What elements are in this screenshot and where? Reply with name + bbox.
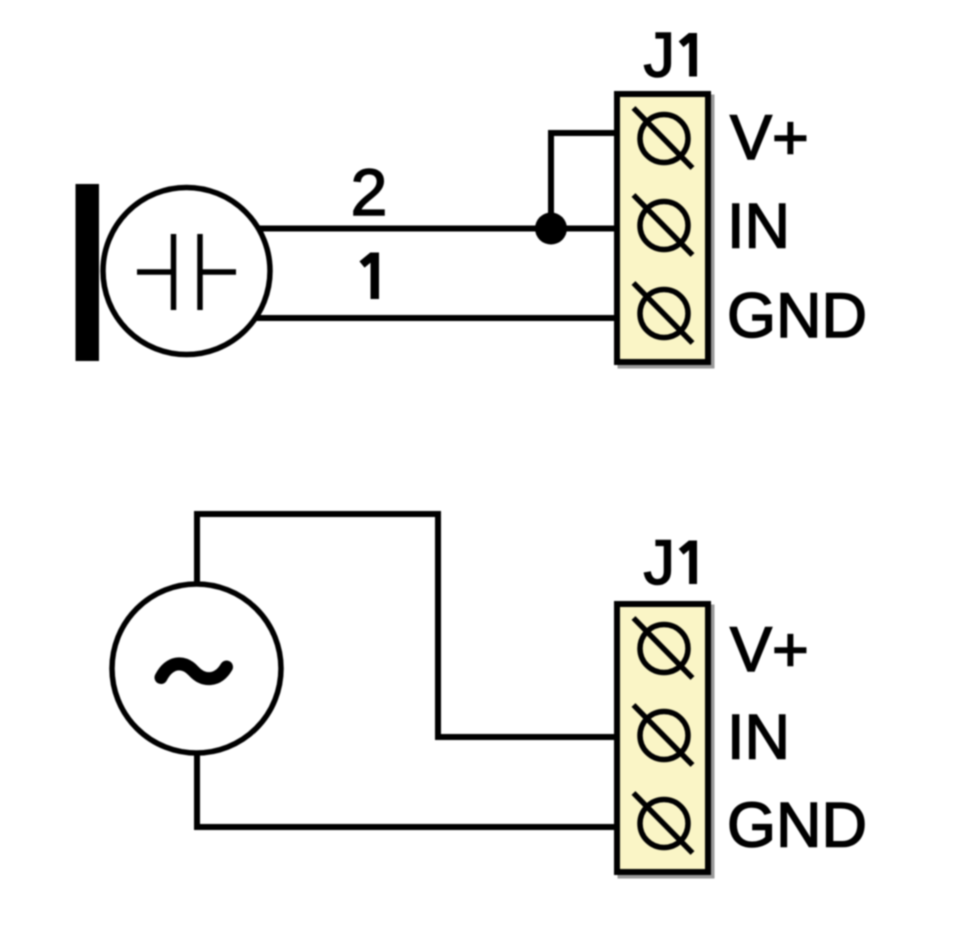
microphone mounting bar — [76, 184, 100, 361]
AC source V1 (bottom circuit) — [112, 584, 281, 753]
J1 drop shadow — [618, 95, 715, 369]
svg-text:GND: GND — [727, 281, 867, 351]
capsule left plate — [171, 234, 177, 310]
screw terminal 2 (IN) — [634, 195, 693, 255]
wire: stub into J1 V+ (horizontal segment) — [548, 130, 617, 136]
screw terminal 2 (IN, bottom) — [634, 705, 693, 765]
svg-text:V+: V+ — [730, 103, 809, 173]
J1 body (bottom) — [617, 604, 708, 872]
AC source body circle — [112, 584, 281, 753]
screw terminal 3 (GND, bottom) — [634, 793, 693, 853]
reference designator J1 (bottom) — [644, 528, 694, 598]
wire: junction up to V+ row (vertical segment) — [548, 130, 554, 231]
wire: AC source top to J1 IN (up, right, down, right) — [197, 514, 617, 737]
svg-text:V+: V+ — [730, 615, 809, 685]
svg-text:IN: IN — [727, 192, 790, 262]
wire 1: mic pin 1 to J1 GND — [257, 315, 617, 321]
J1 drop shadow (bottom) — [618, 605, 715, 879]
AC sine tilde symbol — [161, 664, 227, 679]
wire: AC source bottom to J1 GND (down, right) — [197, 751, 617, 827]
junction dot (wire 2 / V+ tap) — [535, 213, 567, 245]
svg-text:IN: IN — [727, 703, 790, 773]
svg-text:J: J — [644, 21, 676, 91]
wire label 1 — [362, 253, 375, 300]
terminal block J1 (bottom) — [617, 604, 715, 879]
svg-text:GND: GND — [727, 791, 867, 861]
reference designator J1 (top) — [644, 21, 694, 91]
capsule right lead — [203, 269, 237, 275]
microphone body circle — [103, 188, 270, 355]
screw terminal 1 (V+, bottom) — [634, 618, 693, 678]
wire 2: mic pin 2 to junction and J1 IN — [258, 226, 617, 232]
microphone MIC1 (electret microphone symbol, top circuit) — [76, 184, 271, 361]
capsule left lead — [137, 269, 171, 275]
screw terminal 1 (V+) — [634, 108, 693, 168]
svg-text:J: J — [644, 528, 676, 598]
terminal block J1 (top) — [617, 94, 715, 369]
capsule right plate — [197, 234, 203, 310]
J1 body — [617, 94, 708, 362]
svg-text:2: 2 — [351, 155, 388, 229]
screw terminal 3 (GND) — [634, 283, 693, 343]
